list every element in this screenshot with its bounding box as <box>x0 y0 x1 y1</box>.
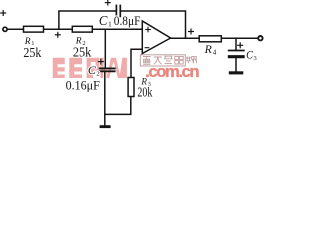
svg-text:C: C <box>99 13 108 28</box>
svg-text:20k: 20k <box>137 85 152 100</box>
svg-text:3: 3 <box>254 55 257 62</box>
svg-text:25k: 25k <box>23 45 41 60</box>
svg-text:0.16μF: 0.16μF <box>66 78 100 92</box>
svg-text:1: 1 <box>108 20 112 29</box>
svg-text:C: C <box>88 65 96 77</box>
svg-text:2: 2 <box>96 70 99 77</box>
svg-text:R: R <box>204 42 213 56</box>
svg-text:4: 4 <box>213 49 217 57</box>
svg-text:25k: 25k <box>73 45 91 60</box>
svg-text:C: C <box>246 49 253 61</box>
svg-text:0.8μF: 0.8μF <box>114 14 141 28</box>
